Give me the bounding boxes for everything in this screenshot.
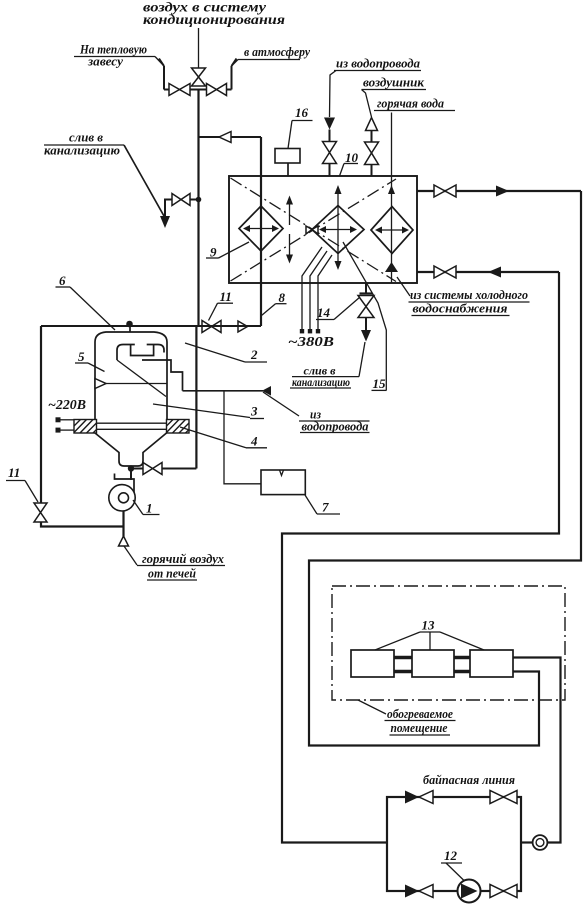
arrow: air up between sections	[289, 203, 291, 225]
wire: drain leader to sewer label	[359, 342, 365, 377]
arrow: drain to sewer (down)	[160, 216, 170, 228]
pipe: radiator return to bypass	[513, 658, 561, 843]
level mark triangle	[95, 379, 106, 389]
svg-text:байпасная линия: байпасная линия	[423, 772, 515, 787]
valve: tiny nozzle at middle diamond left vertex	[306, 226, 318, 234]
pipe: return into exchanger	[417, 271, 559, 273]
pipe: top header	[164, 89, 232, 91]
electric terminals	[56, 417, 61, 422]
heat exchanger section 9: left diamond	[239, 206, 283, 251]
svg-text:горячая вода: горячая вода	[377, 96, 444, 111]
tank funnel bottom	[95, 433, 167, 466]
svg-text:3: 3	[250, 404, 258, 419]
valve: top vertical control valve	[192, 68, 206, 86]
valve: tank drain shutoff	[131, 468, 196, 470]
float valve bracket	[131, 345, 154, 356]
valve: header right shutoff	[207, 84, 227, 96]
heat exchanger unit 10: casing	[229, 176, 417, 283]
svg-text:от печей: от печей	[148, 566, 196, 581]
valve: bypass top right	[490, 791, 517, 804]
arrow: air down between sections	[289, 234, 291, 256]
wire: air outlet riser to conditioning system	[198, 28, 200, 68]
connector: flange double circle	[533, 835, 548, 850]
svg-text:2: 2	[250, 347, 258, 362]
heater plate	[97, 422, 167, 424]
valve: bypass bottom right	[490, 885, 517, 898]
svg-text:помещение: помещение	[391, 720, 448, 735]
pipe: left bypass line	[41, 326, 124, 527]
valve: header left shutoff	[169, 84, 190, 96]
arrow: flow to duct (open, right)	[238, 321, 248, 332]
svg-text:из водопровода: из водопровода	[336, 56, 420, 71]
pipe: hot water line down through right diamond	[391, 113, 393, 284]
wire: right riser to atmosphere	[232, 59, 237, 90]
heater 4: left hatched block	[74, 420, 97, 434]
arrow: air flow to main duct (open, left)	[219, 132, 231, 143]
pipe: middle diamond vertical flow	[337, 193, 339, 262]
valve: water inlet valve	[323, 142, 337, 164]
wire: control line to box 7	[224, 391, 261, 484]
svg-text:11: 11	[220, 289, 232, 304]
arrow: right diamond horizontal double arrow	[377, 229, 407, 231]
room boundary: dash-dot rectangle	[332, 586, 565, 700]
svg-text:горячий воздух: горячий воздух	[142, 551, 224, 566]
svg-text:5: 5	[78, 349, 85, 364]
device 16: sensor box	[275, 149, 300, 164]
pump 1: circulation pump	[130, 469, 132, 481]
svg-text:9: 9	[210, 245, 217, 260]
radiator 13c	[470, 650, 513, 677]
valve: drain shutoff	[172, 194, 190, 206]
pipe: tank bypass riser	[195, 326, 197, 469]
arrow: water inlet (filled down)	[324, 118, 335, 130]
valve 11: tank top shutoff	[202, 321, 221, 333]
pipe: pump suction from furnaces	[122, 511, 124, 537]
water level line	[95, 383, 167, 385]
svg-text:16: 16	[295, 105, 309, 120]
pipe: float feed line	[142, 360, 183, 391]
svg-text:кондиционирования: кондиционирования	[143, 13, 285, 28]
svg-text:канализацию: канализацию	[292, 375, 350, 389]
check valve: bypass bottom left	[405, 885, 419, 898]
pipe: water make-up line with arrow	[183, 390, 264, 392]
svg-text:воздушник: воздушник	[363, 75, 424, 90]
pipe: main air duct	[197, 90, 199, 327]
pipe: return riser right inner	[282, 272, 559, 843]
radiator 13b	[412, 650, 454, 677]
arrow: supply flow right	[496, 186, 509, 197]
svg-text:водоснабжения: водоснабжения	[413, 301, 508, 316]
wires: ~380V supply to humidifier	[302, 247, 322, 329]
float chamber 5	[117, 345, 164, 361]
svg-text:водопровода: водопровода	[302, 419, 369, 434]
bypass loop	[387, 797, 521, 891]
label: горячий воздух от печей	[124, 546, 137, 565]
svg-text:7: 7	[322, 500, 329, 515]
arrow: return flow left	[488, 267, 501, 278]
node: tank lid junction	[126, 321, 133, 328]
tank 2: humidifier vessel body	[95, 332, 167, 420]
arrow: hot air inlet (open up)	[119, 536, 129, 546]
air vent column	[366, 118, 378, 131]
node: tank outlet junction	[128, 465, 134, 471]
svg-text:обогреваемое: обогреваемое	[387, 706, 453, 721]
pipe: supply riser right outer	[309, 191, 581, 746]
wire: dash-dot diagonal 2	[231, 179, 397, 281]
pipe: radiator connectors	[394, 658, 470, 672]
valve 11: left bypass valve	[34, 503, 47, 522]
wire: left riser to heat curtain	[159, 59, 164, 90]
svg-text:12: 12	[444, 848, 458, 863]
humidifier section: middle diamond	[312, 206, 364, 254]
svg-text:15: 15	[373, 376, 387, 391]
svg-text:~220В: ~220В	[48, 398, 86, 413]
svg-text:11: 11	[8, 465, 20, 480]
svg-text:14: 14	[317, 305, 331, 320]
wire: internal diagonal	[117, 360, 166, 397]
node: drain branch junction	[196, 197, 202, 203]
pump 12: bypass pump	[458, 880, 481, 903]
svg-text:4: 4	[250, 434, 258, 449]
heater 4: right hatched block	[167, 420, 190, 434]
arrow: middle diamond horizontal double arrow	[321, 229, 355, 231]
radiator 13a	[351, 650, 394, 677]
svg-text:13: 13	[422, 618, 436, 633]
wire: dash-dot diagonal 1	[231, 178, 397, 282]
wire: drain leader line	[124, 145, 164, 216]
svg-text:1: 1	[146, 501, 153, 516]
pipe: hot supply out of exchanger	[417, 190, 581, 192]
valve: air vent valve	[365, 142, 379, 165]
svg-text:завесу: завесу	[87, 54, 123, 69]
pipe: segment valve-arrow-duct	[199, 325, 262, 327]
svg-text:в атмосферу: в атмосферу	[244, 44, 310, 59]
svg-text:10: 10	[345, 150, 359, 165]
check valve: bypass top left	[405, 791, 419, 804]
controller 7: box	[261, 470, 305, 495]
pipe: drain branch	[165, 200, 199, 217]
svg-text:~380В: ~380В	[288, 335, 334, 350]
pipe: branch duct to heat exchanger	[199, 136, 262, 138]
pipe: humidifier top line	[41, 325, 199, 327]
svg-text:8: 8	[279, 290, 286, 305]
valve: supply shutoff	[434, 185, 456, 197]
heat exchanger section: right diamond	[371, 207, 413, 254]
arrow: left diamond horizontal double arrow	[245, 228, 277, 230]
pipe: vertical duct through heat exchanger	[260, 137, 262, 326]
valve 14: drain valve column	[365, 283, 367, 294]
valve: return shutoff	[434, 266, 456, 278]
svg-text:6: 6	[59, 273, 66, 288]
